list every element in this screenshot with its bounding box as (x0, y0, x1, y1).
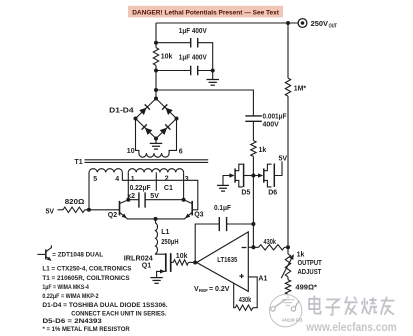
svg-text:L1: L1 (161, 229, 169, 236)
svg-text:D1-D4 = TOSHIBA DUAL DIODE 1SS: D1-D4 = TOSHIBA DUAL DIODE 1SS306. (42, 302, 167, 309)
svg-text:1: 1 (131, 176, 135, 183)
svg-text:250μH: 250μH (161, 239, 178, 246)
svg-text:820Ω: 820Ω (65, 199, 85, 206)
svg-text:10k: 10k (161, 54, 173, 61)
svg-text:Q2: Q2 (108, 212, 117, 219)
svg-text:1k: 1k (259, 147, 267, 154)
svg-text:430k: 430k (264, 239, 277, 246)
svg-text:1μF = WIMA MKS-4: 1μF = WIMA MKS-4 (42, 284, 89, 291)
svg-text:5V: 5V (279, 156, 288, 163)
svg-text:6: 6 (179, 148, 183, 155)
svg-text:T1 = 210605R, COILTRONICS: T1 = 210605R, COILTRONICS (42, 275, 130, 282)
svg-text:Q3: Q3 (194, 212, 203, 219)
svg-text:* = 1% METAL FILM RESISTOR: * = 1% METAL FILM RESISTOR (43, 326, 130, 333)
svg-text:400V: 400V (263, 122, 280, 129)
svg-text:IRLR024: IRLR024 (124, 255, 153, 262)
svg-text:C1: C1 (164, 185, 173, 192)
svg-text:x2: x2 (127, 193, 135, 200)
svg-text:0.22μF: 0.22μF (130, 185, 152, 192)
svg-text:499Ω*: 499Ω* (295, 285, 317, 292)
svg-text:OUT: OUT (329, 23, 337, 29)
svg-text:LT1635: LT1635 (217, 257, 237, 264)
svg-text:D6: D6 (268, 190, 277, 197)
svg-text:= ZDT1048 DUAL: = ZDT1048 DUAL (52, 252, 103, 259)
svg-text:CONNECT EACH UNIT IN SERIES.: CONNECT EACH UNIT IN SERIES. (71, 311, 166, 318)
svg-text:4: 4 (115, 176, 119, 183)
svg-text:Q1: Q1 (142, 263, 151, 270)
svg-text:3: 3 (185, 176, 189, 183)
svg-text:1μF 400V: 1μF 400V (179, 54, 207, 61)
svg-text:D1-D4: D1-D4 (109, 108, 134, 115)
svg-text:430k: 430k (239, 297, 252, 304)
svg-text:D5-D6 = 2N4393: D5-D6 = 2N4393 (43, 318, 103, 325)
svg-text:T1: T1 (75, 159, 83, 166)
svg-text:1k: 1k (297, 251, 305, 258)
svg-text:D5: D5 (241, 189, 250, 196)
svg-text:= 0.2V: = 0.2V (209, 286, 230, 293)
svg-text:2: 2 (165, 175, 169, 182)
svg-text:250V: 250V (311, 21, 329, 28)
svg-text:REF: REF (199, 288, 208, 293)
svg-text:10: 10 (127, 148, 135, 155)
svg-text:ADJUST: ADJUST (298, 269, 322, 276)
svg-text:www.elecfans.com: www.elecfans.com (305, 320, 396, 334)
svg-text:10k: 10k (176, 253, 188, 260)
svg-text:1μF 400V: 1μF 400V (179, 28, 207, 35)
svg-text:5V: 5V (150, 193, 159, 200)
svg-text:0.22μF = WIMA MKP-2: 0.22μF = WIMA MKP-2 (42, 293, 99, 300)
svg-text:0.1μF: 0.1μF (214, 205, 232, 212)
svg-text:5V: 5V (46, 208, 55, 215)
svg-text:5: 5 (93, 176, 97, 183)
svg-text:DANGER! Lethal Potentials Pres: DANGER! Lethal Potentials Present — See … (132, 9, 280, 16)
svg-text:A1: A1 (258, 275, 267, 282)
svg-text:0.001μF: 0.001μF (263, 114, 288, 121)
svg-text:1M*: 1M* (294, 85, 307, 92)
svg-text:AN118 F01: AN118 F01 (282, 317, 304, 322)
svg-text:L1 = CTX250-4, COILTRONICS: L1 = CTX250-4, COILTRONICS (42, 266, 132, 273)
svg-text:OUTPUT: OUTPUT (298, 260, 323, 267)
